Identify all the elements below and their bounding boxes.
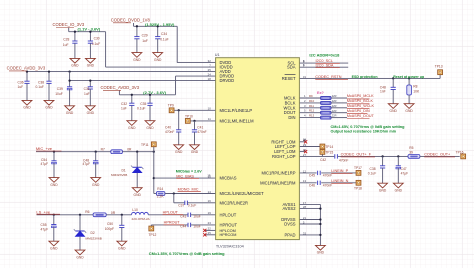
svg-text:TP15: TP15 (325, 151, 333, 155)
svg-text:GND: GND (390, 109, 398, 113)
svg-text:22: 22 (208, 227, 212, 231)
svg-text:ESD protection: ESD protection (352, 75, 378, 79)
svg-text:HPRCOM: HPRCOM (220, 233, 237, 237)
svg-text:HPROUT: HPROUT (220, 222, 238, 227)
svg-text:25: 25 (208, 68, 212, 72)
svg-text:CODEC_OUT+_F: CODEC_OUT+_F (341, 153, 372, 157)
svg-text:25: 25 (208, 231, 212, 235)
svg-text:0.1uF: 0.1uF (188, 203, 196, 207)
svg-text:MM3Z3V6B: MM3Z3V6B (86, 237, 102, 241)
svg-text:22R: 22R (332, 114, 337, 118)
svg-text:GND: GND (23, 106, 31, 110)
svg-text:TP10: TP10 (185, 114, 193, 118)
svg-text:TP12: TP12 (149, 233, 157, 237)
svg-text:C35: C35 (140, 102, 146, 106)
svg-text:C39: C39 (57, 87, 63, 91)
svg-text:TP17: TP17 (354, 166, 362, 170)
svg-text:10uF: 10uF (55, 92, 63, 96)
svg-text:TP9: TP9 (168, 104, 174, 108)
svg-text:TP11: TP11 (141, 143, 149, 147)
svg-text:C45: C45 (309, 174, 315, 178)
svg-text:HPLCOM: HPLCOM (220, 229, 236, 233)
svg-text:PPAD: PPAD (285, 232, 296, 237)
svg-text:C37: C37 (178, 203, 184, 207)
svg-text:1uF: 1uF (142, 39, 148, 43)
svg-text:CM=1.65V, 0.707Vrms @ 0dB gain: CM=1.65V, 0.707Vrms @ 0dB gain setting (331, 125, 406, 129)
svg-text:23: 23 (208, 221, 212, 225)
svg-text:C32: C32 (121, 102, 127, 106)
svg-text:GND: GND (317, 251, 325, 255)
svg-text:470nF: 470nF (197, 130, 206, 134)
svg-text:26: 26 (303, 138, 307, 142)
svg-text:TP14: TP14 (325, 145, 333, 149)
svg-text:LINEIN_P: LINEIN_P (331, 169, 348, 173)
svg-text:CODEC_AVDD_3V3: CODEC_AVDD_3V3 (101, 85, 140, 90)
svg-text:MIC_BIAS: MIC_BIAS (176, 174, 194, 178)
svg-text:47µF: 47µF (401, 172, 409, 176)
svg-text:(1.525V - 1.95V): (1.525V - 1.95V) (145, 22, 175, 27)
svg-text:GND: GND (76, 255, 84, 259)
svg-text:470nF: 470nF (339, 159, 348, 163)
svg-text:R12: R12 (309, 109, 315, 113)
svg-text:Output load resistance 10KOhm: Output load resistance 10KOhm min (331, 130, 397, 134)
svg-text:I2C0_SDA: I2C0_SDA (316, 63, 334, 67)
svg-text:470nF: 470nF (165, 130, 174, 134)
svg-text:22R: 22R (332, 94, 337, 98)
svg-text:R7: R7 (101, 147, 105, 151)
svg-text:GND: GND (175, 150, 183, 154)
svg-text:R13: R13 (309, 114, 315, 118)
svg-text:GND: GND (118, 246, 126, 250)
svg-text:DVSS: DVSS (284, 222, 296, 227)
svg-text:GND: GND (128, 126, 136, 130)
svg-text:McASP0_DIN: McASP0_DIN (347, 109, 370, 113)
svg-text:0R: 0R (127, 147, 132, 151)
svg-text:MIC_+ve: MIC_+ve (36, 146, 53, 151)
svg-text:33: 33 (303, 231, 307, 235)
svg-text:470nF: 470nF (323, 174, 332, 178)
svg-text:47µF: 47µF (41, 227, 49, 231)
svg-text:DRVDD: DRVDD (220, 78, 235, 83)
svg-text:19: 19 (208, 211, 212, 215)
svg-text:C30: C30 (94, 36, 100, 40)
svg-text:GND: GND (50, 183, 58, 187)
svg-text:R14: R14 (157, 187, 163, 191)
svg-text:GND: GND (45, 106, 53, 110)
svg-text:McASP0_WCLK: McASP0_WCLK (347, 104, 375, 108)
svg-text:39: 39 (409, 150, 413, 154)
svg-text:R5: R5 (409, 146, 413, 150)
svg-text:470nF: 470nF (323, 184, 332, 188)
svg-text:HPLOUT: HPLOUT (163, 211, 179, 215)
svg-text:21: 21 (303, 216, 307, 220)
svg-text:GND: GND (134, 193, 142, 197)
svg-text:MIC1LM/LINE1LM: MIC1LM/LINE1LM (220, 118, 255, 123)
svg-text:C34: C34 (161, 32, 167, 36)
svg-text:MIC1RP/LINE1RP: MIC1RP/LINE1RP (261, 170, 295, 175)
svg-text:0.1uF: 0.1uF (368, 172, 376, 176)
svg-text:30: 30 (303, 148, 307, 152)
svg-text:TP13: TP13 (435, 65, 443, 69)
svg-text:C42: C42 (320, 158, 326, 162)
svg-text:RESET: RESET (282, 76, 296, 81)
svg-text:GND: GND (87, 111, 95, 115)
svg-text:AVSS2: AVSS2 (282, 206, 296, 211)
svg-text:C31: C31 (84, 87, 90, 91)
svg-text:MIC2R/LINE2R: MIC2R/LINE2R (220, 200, 249, 205)
svg-text:LINEIN_N: LINEIN_N (331, 179, 348, 183)
svg-text:GND: GND (87, 64, 95, 68)
svg-text:27: 27 (303, 153, 307, 157)
svg-text:32: 32 (208, 59, 212, 63)
svg-text:I2C ADDR=0x18: I2C ADDR=0x18 (309, 52, 340, 57)
svg-text:1nF: 1nF (380, 90, 386, 94)
svg-text:31: 31 (303, 75, 307, 79)
svg-text:GND: GND (154, 58, 162, 62)
svg-text:CM=1.35V, 0.707Vrms @ 0dB gain: CM=1.35V, 0.707Vrms @ 0dB gain setting (149, 251, 225, 256)
svg-text:C38: C38 (38, 80, 44, 84)
svg-text:MM3Z3V6B: MM3Z3V6B (111, 173, 127, 177)
svg-text:0R: 0R (111, 211, 116, 215)
svg-text:MICbias = 2.6V: MICbias = 2.6V (176, 169, 202, 173)
svg-text:D1: D1 (122, 168, 126, 172)
svg-text:16: 16 (208, 199, 212, 203)
svg-text:GND: GND (71, 64, 79, 68)
svg-text:GND: GND (379, 188, 387, 192)
svg-text:10uF: 10uF (193, 215, 201, 219)
svg-text:0.1uF: 0.1uF (92, 42, 100, 46)
svg-text:11: 11 (208, 117, 211, 121)
svg-text:C29: C29 (142, 33, 148, 37)
svg-text:CODEC_RSTN: CODEC_RSTN (315, 75, 341, 79)
svg-text:D2: D2 (91, 231, 95, 235)
svg-text:R8: R8 (413, 85, 417, 89)
svg-text:HPLOUT: HPLOUT (220, 212, 237, 217)
svg-text:U1: U1 (215, 53, 220, 57)
svg-text:MIC2L/LINE2L/MICDET: MIC2L/LINE2L/MICDET (220, 191, 265, 196)
svg-text:18: 18 (208, 77, 212, 81)
svg-text:10: 10 (208, 107, 212, 111)
svg-text:SDA: SDA (287, 65, 296, 70)
svg-text:R6: R6 (85, 210, 89, 214)
svg-text:28: 28 (303, 205, 307, 209)
svg-text:C50: C50 (107, 222, 113, 226)
svg-text:220-OHM-2A: 220-OHM-2A (132, 217, 151, 221)
svg-text:R11: R11 (309, 104, 314, 108)
svg-text:GND: GND (50, 246, 58, 250)
svg-text:C28: C28 (63, 38, 69, 42)
svg-text:R10: R10 (309, 99, 315, 103)
svg-text:TLV320AIC3104: TLV320AIC3104 (216, 244, 244, 248)
svg-text:DIN: DIN (288, 115, 295, 120)
svg-text:C55: C55 (41, 223, 47, 227)
svg-text:GND: GND (92, 183, 100, 187)
svg-text:0.1uF: 0.1uF (137, 107, 145, 111)
svg-text:12: 12 (303, 169, 307, 173)
svg-text:GND: GND (66, 111, 74, 115)
svg-text:CODEC_AVDD_3V3: CODEC_AVDD_3V3 (7, 66, 46, 71)
svg-text:(1.1V - 3.6V): (1.1V - 3.6V) (78, 27, 101, 32)
svg-text:100pF: 100pF (105, 227, 114, 231)
svg-text:2.2K: 2.2K (157, 195, 165, 199)
svg-text:C41: C41 (197, 126, 203, 130)
svg-text:14: 14 (208, 190, 212, 194)
svg-text:GND: GND (395, 188, 403, 192)
svg-text:22R: 22R (332, 109, 337, 113)
svg-text:22R: 22R (332, 99, 337, 103)
svg-text:TP18: TP18 (354, 186, 362, 190)
svg-text:15: 15 (207, 174, 211, 178)
svg-text:GND: GND (405, 109, 413, 113)
svg-text:1uF: 1uF (18, 85, 24, 89)
svg-text:10uF: 10uF (193, 225, 201, 229)
svg-text:C43: C43 (180, 215, 186, 219)
svg-text:0.1uF: 0.1uF (36, 85, 44, 89)
svg-text:47µF: 47µF (41, 162, 49, 166)
svg-text:MICBIAS: MICBIAS (220, 176, 237, 181)
svg-text:GND: GND (133, 58, 141, 62)
svg-text:McASP0_MCLK: McASP0_MCLK (347, 94, 374, 98)
svg-text:47µF: 47µF (83, 162, 91, 166)
svg-text:1uF: 1uF (84, 92, 90, 96)
svg-text:C38: C38 (370, 167, 376, 171)
svg-text:LS_+ve: LS_+ve (36, 209, 50, 214)
svg-text:Reset at power up: Reset at power up (393, 75, 425, 79)
svg-text:TP16: TP16 (456, 151, 464, 155)
svg-text:C48: C48 (380, 85, 386, 89)
svg-text:GND: GND (191, 150, 199, 154)
svg-text:McASP0_DOUT: McASP0_DOUT (347, 114, 375, 118)
svg-text:C36: C36 (18, 80, 24, 84)
svg-text:C46: C46 (309, 184, 315, 188)
svg-text:C40: C40 (165, 126, 171, 130)
svg-text:10K: 10K (413, 89, 420, 93)
svg-text:C47: C47 (401, 167, 407, 171)
svg-text:1uF: 1uF (121, 107, 127, 111)
svg-text:13: 13 (303, 179, 307, 183)
svg-text:22R: 22R (332, 104, 337, 108)
svg-text:HPROUT: HPROUT (164, 221, 181, 225)
svg-text:24: 24 (208, 72, 212, 76)
svg-text:McASP0_BCLK: McASP0_BCLK (347, 99, 374, 103)
svg-text:CODEC_OUT+: CODEC_OUT+ (424, 153, 451, 157)
svg-text:R9: R9 (309, 94, 313, 98)
svg-text:MONO_MIC: MONO_MIC (178, 187, 199, 191)
svg-text:L10: L10 (132, 208, 138, 212)
svg-text:C44: C44 (180, 225, 186, 229)
svg-text:0.1uF: 0.1uF (160, 38, 168, 42)
svg-text:1uF: 1uF (63, 43, 69, 47)
svg-text:29: 29 (303, 143, 307, 147)
svg-text:GND: GND (146, 126, 154, 130)
svg-text:MIC1LP/LINE1LP: MIC1LP/LINE1LP (220, 108, 253, 113)
svg-text:MIC1RM/LINE1RM: MIC1RM/LINE1RM (260, 180, 296, 185)
svg-text:(2.7V - 3.6V): (2.7V - 3.6V) (143, 90, 166, 95)
svg-text:Ex?: Ex? (317, 91, 325, 95)
svg-text:RIGHT_LOP: RIGHT_LOP (272, 154, 296, 159)
